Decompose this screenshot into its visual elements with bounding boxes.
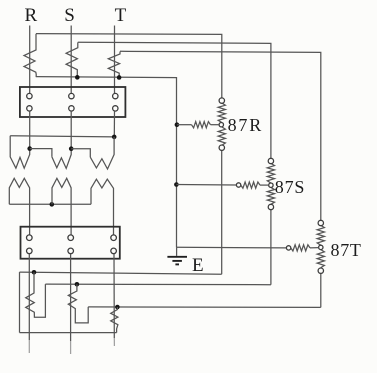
- bushing terminal: [68, 248, 74, 254]
- wire bus D (CT2T bottom return): [20, 332, 117, 334]
- wire 87R operate lead: [177, 124, 192, 126]
- bushing terminal: [111, 235, 117, 241]
- CT secondary winding CT1T: [108, 52, 120, 78]
- wire T phase top: [114, 26, 116, 94]
- relay 87T restraint coil lower: [317, 250, 324, 268]
- winding T2 (star): [91, 179, 114, 235]
- junction CT1S common: [75, 75, 80, 80]
- terminal 87T mid: [319, 245, 323, 249]
- terminal 87T top: [318, 220, 323, 225]
- relay 87R operating coil: [192, 122, 211, 128]
- wire bus A left drop: [19, 272, 21, 333]
- wire node a to S1: [30, 149, 52, 157]
- terminal 87T bottom: [318, 268, 323, 273]
- wire CT1T top tap to 87T: [120, 51, 321, 220]
- wire star neutral bus: [9, 203, 91, 205]
- junction 87S operate tap: [174, 182, 179, 187]
- bushing terminal: [27, 93, 32, 98]
- transformer upper bushing box: [20, 87, 126, 117]
- wire 87T operate lead: [177, 246, 287, 249]
- wire delta link c to R1 start: [10, 136, 114, 137]
- terminal 87R bottom: [219, 145, 224, 150]
- bushing terminal: [113, 93, 118, 98]
- terminal 87S mid: [269, 183, 273, 187]
- junction node b: [69, 146, 74, 151]
- winding R2 (star): [9, 178, 29, 235]
- wire T phase bottom: [113, 254, 115, 338]
- wire CT1R top tap to 87R: [36, 34, 222, 99]
- wire R phase bottom fade: [28, 340, 30, 353]
- junction CT2S top tap: [75, 282, 80, 287]
- CT secondary winding CT2T: [111, 307, 118, 333]
- junction star neutral: [50, 202, 55, 207]
- terminal 87S top: [268, 158, 273, 163]
- wire bus A (T2ct-R1ct-87R): [20, 272, 222, 274]
- svg-text:E: E: [192, 255, 204, 276]
- bushing terminal: [113, 106, 118, 111]
- wire 87R operate stub: [211, 124, 220, 126]
- wire node b to T1: [71, 149, 90, 158]
- bushing terminal: [69, 93, 74, 98]
- junction CT2R top tap: [32, 270, 37, 275]
- wire S phase bottom: [70, 254, 72, 341]
- wire bus B (R2ct-S1ct-87S): [45, 283, 271, 286]
- svg-text:T: T: [115, 5, 127, 26]
- wire 87T operate stub: [310, 247, 319, 249]
- svg-text:R: R: [25, 5, 38, 26]
- terminal 87R top: [219, 98, 224, 103]
- wire S phase top: [70, 26, 72, 94]
- CT secondary winding CT1S: [66, 42, 78, 77]
- svg-text:87T: 87T: [331, 240, 362, 260]
- winding S2 (star): [52, 178, 71, 235]
- junction CT2T top tap: [115, 305, 120, 310]
- winding T1 (delta): [90, 137, 114, 169]
- relay 87T restraint coil upper: [317, 225, 324, 245]
- bushing terminal: [27, 106, 32, 111]
- wire 87S operate stub: [260, 184, 269, 186]
- wire 87T bottom lead: [320, 273, 322, 307]
- relay 87S restraint coil lower: [267, 187, 274, 204]
- junction 87R operate tap: [175, 122, 180, 127]
- junction CT1T common: [117, 75, 122, 80]
- relay 87T operating coil: [291, 245, 310, 251]
- terminal 87S operate: [236, 183, 240, 187]
- wire 87S operate lead: [176, 184, 236, 187]
- wire CT common return to ground bus: [36, 77, 176, 248]
- wire T phase bottom fade: [113, 338, 115, 346]
- wire bus C (S2ct-T1ct-87T): [88, 306, 321, 309]
- wire R phase to node a: [29, 111, 31, 149]
- relay 87S operating coil: [241, 182, 260, 188]
- transformer lower bushing box: [21, 227, 120, 259]
- winding S1 (delta): [52, 149, 71, 169]
- wire S phase bottom fade: [70, 341, 72, 354]
- terminal 87S bottom: [268, 204, 273, 209]
- ground symbol E: [167, 257, 187, 265]
- wire S phase to node b: [70, 111, 72, 149]
- svg-text:S: S: [64, 5, 75, 26]
- terminal 87T operate: [286, 246, 290, 250]
- relay 87S restraint coil upper: [267, 163, 274, 183]
- bushing terminal: [68, 235, 74, 241]
- terminal 87R mid: [219, 123, 223, 127]
- CT secondary winding CT2S: [68, 284, 88, 323]
- wire R phase top: [29, 26, 31, 94]
- CT secondary winding CT2R: [26, 272, 46, 317]
- wire 87R bottom lead: [221, 150, 223, 274]
- relay 87R restraint coil lower: [218, 127, 225, 145]
- svg-text:87S: 87S: [275, 177, 305, 197]
- bushing terminal: [69, 106, 74, 111]
- junction node c: [112, 135, 117, 140]
- wire ground stub: [176, 247, 178, 256]
- wire CT1S top tap to 87S: [78, 42, 271, 158]
- winding R1 (delta): [10, 136, 30, 168]
- svg-text:87R: 87R: [228, 115, 263, 135]
- wire T phase to node c: [113, 111, 115, 137]
- junction node a: [27, 146, 32, 151]
- wire R phase bottom: [28, 254, 30, 340]
- relay 87R restraint coil upper: [218, 103, 225, 123]
- bushing terminal: [27, 235, 33, 241]
- CT secondary winding CT1R: [24, 34, 36, 77]
- bushing terminal: [27, 248, 33, 254]
- bushing terminal: [111, 248, 117, 254]
- wire 87S bottom lead: [270, 210, 272, 285]
